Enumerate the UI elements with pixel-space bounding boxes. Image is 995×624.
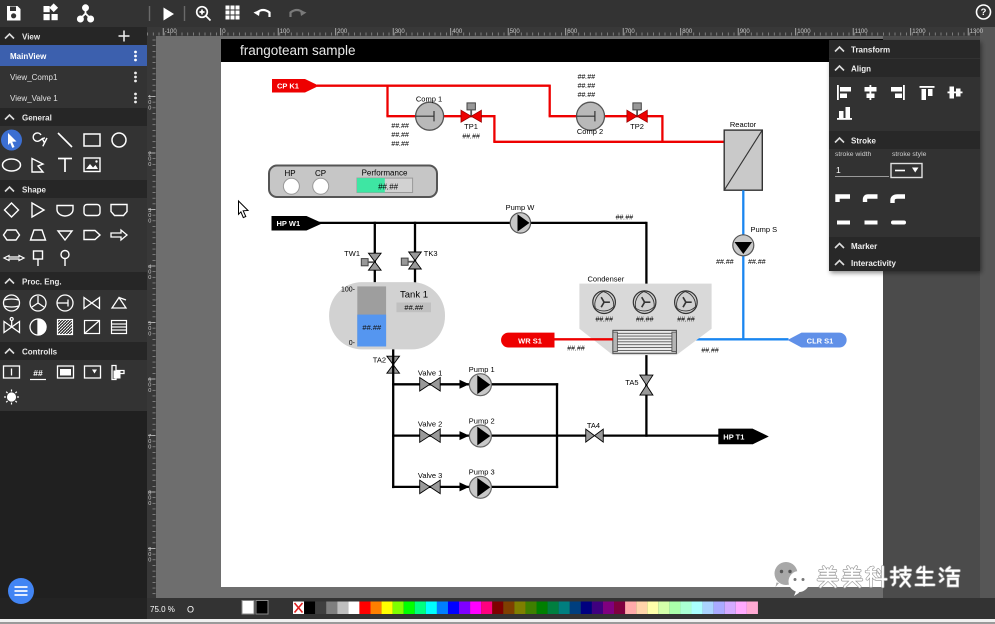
svg-text:##.##: ##.## (391, 123, 409, 130)
pipe: red drop to Comp 2 (549, 85, 551, 117)
svg-text:##.##: ##.## (748, 259, 766, 266)
shape: hexagon (4, 230, 20, 240)
svg-text:Transform: Transform (851, 46, 890, 55)
tag HP T1 (718, 429, 769, 445)
pipe: red comp1 branch (386, 115, 495, 117)
proc: motor valve (4, 318, 20, 333)
svg-text:frangoteam sample: frangoteam sample (240, 43, 356, 58)
svg-text:Shape: Shape (22, 186, 47, 195)
svg-text:Stroke: Stroke (851, 137, 876, 146)
svg-text:Interactivity: Interactivity (851, 259, 896, 268)
svg-text:0: 0 (148, 444, 151, 450)
watermark wechat icon (775, 562, 810, 596)
tool: image (84, 158, 100, 172)
valve TP2 (627, 103, 647, 131)
svg-text:1200: 1200 (912, 29, 926, 35)
svg-text:HP W1: HP W1 (277, 219, 301, 228)
svg-text:TA5: TA5 (625, 378, 638, 387)
tool: text (58, 159, 72, 173)
pipe: red drop after TP2 (661, 115, 663, 143)
toolbar: widgets icon (44, 3, 59, 20)
svg-text:stroke style: stroke style (892, 151, 927, 158)
svg-text:0: 0 (148, 105, 151, 111)
valve Valve 3 (418, 471, 442, 494)
svg-text:TP2: TP2 (630, 122, 644, 131)
view title bar (221, 39, 883, 62)
arrow into Pump 2 (460, 431, 470, 440)
svg-text:0: 0 (148, 162, 151, 168)
pipe: TA4 to HP T1 (602, 434, 719, 436)
svg-text:Condenser: Condenser (588, 275, 625, 284)
proc: pump (30, 295, 46, 311)
pipe: branch 3 (392, 486, 469, 488)
svg-text:CLR S1: CLR S1 (807, 336, 834, 345)
svg-text:500: 500 (510, 29, 521, 35)
pipe: red line to reactor (493, 141, 725, 143)
pipe: blue from reactor to pump S (742, 190, 744, 339)
pump S (716, 225, 777, 266)
svg-text:Pump 2: Pump 2 (469, 416, 495, 425)
pipe: TA5 vertical (645, 353, 647, 437)
pipe: red drop after TP1 (493, 115, 495, 142)
heat exchanger (613, 330, 677, 353)
condenser fan (633, 291, 656, 324)
ctrl: gauge sun (4, 390, 19, 405)
pipe: black main HP W1 line (317, 222, 646, 224)
labels ##.## near Comp 1 (391, 123, 409, 148)
svg-text:0: 0 (148, 275, 151, 281)
tag CLR S1 (788, 333, 847, 348)
shape: rounded rect (84, 205, 100, 216)
tool: path (32, 159, 43, 173)
pipe: branch 1 out (491, 383, 558, 385)
tag CP K1 (272, 79, 319, 93)
pump Pump 3 (469, 468, 495, 499)
condenser fan (593, 291, 616, 324)
compressor Comp 2 (577, 102, 605, 136)
pump Pump 1 (469, 365, 495, 396)
shape: triangle right (32, 203, 44, 217)
svg-text:200: 200 (337, 29, 348, 35)
svg-text:-100: -100 (165, 29, 178, 35)
shape: pentagon right (84, 231, 100, 240)
tag WR S1 (501, 333, 554, 348)
svg-text:MainView: MainView (10, 52, 47, 61)
svg-text:Marker: Marker (851, 242, 877, 251)
svg-text:TW1: TW1 (344, 249, 360, 258)
svg-text:Comp 1: Comp 1 (416, 95, 442, 104)
svg-text:1100: 1100 (855, 29, 869, 35)
stroke cap buttons (837, 221, 904, 225)
svg-text:0: 0 (148, 218, 151, 224)
proc: angle valve (112, 298, 126, 309)
svg-text:##.##: ##.## (716, 259, 734, 266)
svg-text:0-: 0- (349, 340, 356, 347)
svg-text:1300: 1300 (970, 29, 984, 35)
shape: cup (111, 205, 127, 216)
FAB menu button (8, 578, 34, 604)
svg-text:Valve 3: Valve 3 (418, 471, 442, 480)
toolbar: play icon (164, 8, 175, 21)
valve Valve 2 (418, 420, 442, 443)
left sidebar sections (0, 27, 147, 45)
svg-text:Valve 2: Valve 2 (418, 420, 442, 429)
svg-text:TA4: TA4 (587, 421, 600, 430)
svg-text:TK3: TK3 (424, 249, 438, 258)
svg-text:Comp 2: Comp 2 (577, 127, 603, 136)
svg-text:##.##: ##.## (391, 141, 409, 148)
svg-text:1000: 1000 (797, 29, 811, 35)
ctrl: pipe (112, 366, 124, 380)
svg-text:Valve 1: Valve 1 (418, 368, 442, 377)
reactor (724, 120, 762, 190)
toolbar: redo icon (291, 10, 307, 17)
svg-text:CP K1: CP K1 (277, 82, 299, 91)
tool: ellipse (3, 159, 21, 171)
svg-text:Pump 3: Pump 3 (469, 468, 495, 477)
svg-text:Reactor: Reactor (730, 120, 757, 129)
valve TW1 (344, 249, 381, 270)
fill/stroke swatches (242, 601, 254, 615)
align bottom icon (837, 107, 852, 120)
svg-text:0: 0 (148, 388, 151, 394)
svg-text:View: View (22, 33, 41, 42)
stroke join buttons (838, 197, 906, 204)
svg-text:800: 800 (682, 29, 693, 35)
pump Pump W (506, 203, 536, 233)
svg-text:##.##: ##.## (391, 132, 409, 139)
pipe: collector vertical (556, 383, 558, 488)
svg-text:900: 900 (740, 29, 751, 35)
svg-text:CP: CP (315, 169, 326, 178)
shape: triangle down (58, 231, 72, 240)
svg-text:400: 400 (452, 29, 463, 35)
svg-text:100: 100 (280, 29, 291, 35)
proc: diagonal box (85, 321, 100, 334)
pipe: branch 3 out (491, 486, 558, 488)
svg-text:stroke width: stroke width (835, 151, 871, 158)
toolbar: save icon (7, 6, 21, 21)
tool: line (58, 133, 72, 147)
shape: bowl (57, 206, 73, 217)
svg-text:##.##: ##.## (578, 92, 596, 99)
shape: arrow right (111, 230, 127, 240)
pipe: drop to condenser (645, 222, 647, 285)
svg-text:Pump S: Pump S (751, 225, 778, 234)
pipe: drop to TK3/tank (414, 222, 416, 295)
toolbar: undo icon (254, 10, 270, 17)
svg-text:100-: 100- (341, 287, 356, 294)
svg-text:##.##: ##.## (362, 323, 382, 332)
svg-text:##.##: ##.## (701, 348, 719, 355)
svg-text:##.##: ##.## (578, 83, 596, 90)
svg-text:1: 1 (836, 165, 841, 175)
svg-text:##.##: ##.## (462, 134, 480, 141)
shape: pin circle (61, 251, 69, 267)
svg-text:Proc. Eng.: Proc. Eng. (22, 278, 62, 287)
svg-text:0: 0 (148, 501, 151, 507)
condenser fan (675, 291, 698, 324)
svg-text:Controlls: Controlls (22, 348, 58, 357)
pipe: blue horizontal to CLR S1 (676, 338, 788, 340)
svg-text:View_Valve 1: View_Valve 1 (10, 94, 58, 103)
stroke style dropdown (891, 164, 922, 178)
toolbar: help icon (977, 5, 991, 19)
shape: pin square (34, 251, 43, 266)
tool: pointer (selected) (1, 130, 22, 151)
arrow into Pump 1 (460, 380, 470, 389)
svg-text:General: General (22, 114, 52, 123)
toolbar: grid icon (226, 6, 240, 20)
shape: double arrow (4, 256, 24, 261)
svg-text:Tank 1: Tank 1 (400, 290, 428, 301)
svg-text:##.##: ##.## (578, 74, 596, 81)
ctrl: select (85, 366, 101, 378)
pump Pump 2 (469, 416, 495, 447)
pipe: branch 2 out to TA4 (491, 434, 587, 436)
proc: half circle (30, 319, 46, 335)
horizontal ruler (148, 33, 976, 36)
valve TA2 (373, 356, 400, 374)
svg-text:##.##: ##.## (636, 317, 654, 324)
svg-text:##.##: ##.## (567, 346, 585, 353)
tool: rectangle (84, 134, 100, 146)
arrow into Pump 3 (460, 482, 470, 491)
valve Valve 1 (418, 368, 442, 391)
svg-text:##.##: ##.## (677, 317, 695, 324)
svg-text:75.0 %: 75.0 % (150, 605, 175, 614)
svg-text:?: ? (981, 7, 987, 18)
svg-text:WR S1: WR S1 (518, 336, 542, 345)
svg-text:300: 300 (395, 29, 406, 35)
condenser body (579, 284, 711, 356)
pipe: branch 1 (392, 383, 469, 385)
svg-text:O: O (187, 605, 194, 615)
svg-text:HP T1: HP T1 (723, 432, 744, 441)
svg-text:##.##: ##.## (404, 303, 424, 312)
svg-text:##.##: ##.## (616, 215, 634, 222)
pipe: tank outlet vertical (392, 349, 394, 488)
svg-text:600: 600 (567, 29, 578, 35)
proc: hatched box (58, 320, 73, 335)
svg-text:0: 0 (148, 557, 151, 563)
toolbar: device hub icon (78, 5, 93, 21)
svg-text:0: 0 (148, 331, 151, 337)
HMI panel HP/CP/Performance (269, 166, 437, 198)
proc: valve (84, 298, 100, 309)
pipe: red main line from CP K1 (317, 85, 550, 87)
mouse cursor (239, 201, 249, 218)
pipe: drop to TW1/tank (374, 222, 376, 295)
svg-text:##.##: ##.## (378, 183, 399, 192)
svg-text:Align: Align (851, 65, 871, 74)
pipe: red WR S1 line (552, 338, 613, 340)
ctrl: button (58, 366, 74, 378)
ctrl: output value (30, 368, 46, 380)
svg-text:Performance: Performance (362, 169, 408, 178)
toolbar separator 2 (184, 6, 186, 21)
tag HP W1 (272, 216, 323, 231)
shape: trapezoid (31, 230, 46, 240)
pipe: branch 2 (392, 434, 469, 436)
valve TP1 (461, 103, 481, 141)
svg-text:Pump W: Pump W (506, 203, 536, 212)
tank Tank 1 (329, 282, 445, 349)
shape: diamond (5, 203, 19, 217)
align icons (837, 85, 963, 100)
svg-text:HP: HP (284, 169, 295, 178)
valve TA4 (586, 421, 604, 442)
svg-text:View_Comp1: View_Comp1 (10, 73, 58, 82)
tool: curve (33, 133, 47, 146)
palette (293, 602, 758, 615)
proc: exchanger box (112, 321, 127, 334)
toolbar separator 1 (149, 6, 151, 21)
proc: compressor (57, 295, 73, 311)
watermark text (vector CJK approximation) (818, 567, 959, 587)
right panel (829, 40, 980, 271)
svg-text:TA2: TA2 (373, 356, 386, 365)
labels ##.## above Comp 2 (578, 74, 596, 99)
pipe: red comp2 branch (549, 115, 663, 117)
svg-text:TP1: TP1 (464, 122, 478, 131)
valve TK3 (401, 249, 437, 269)
pipe: red drop to Comp 1 (386, 85, 388, 117)
svg-text:700: 700 (625, 29, 636, 35)
vertical ruler (153, 40, 156, 594)
ctrl: html input (4, 366, 20, 378)
svg-text:##: ## (33, 368, 43, 378)
proc: tank (4, 295, 20, 311)
valve TA5 (625, 375, 653, 395)
tool: circle (112, 133, 126, 147)
toolbar: zoom icon (197, 7, 211, 21)
compressor Comp 1 (416, 95, 444, 131)
svg-text:Pump 1: Pump 1 (469, 365, 495, 374)
svg-text:##.##: ##.## (595, 317, 613, 324)
